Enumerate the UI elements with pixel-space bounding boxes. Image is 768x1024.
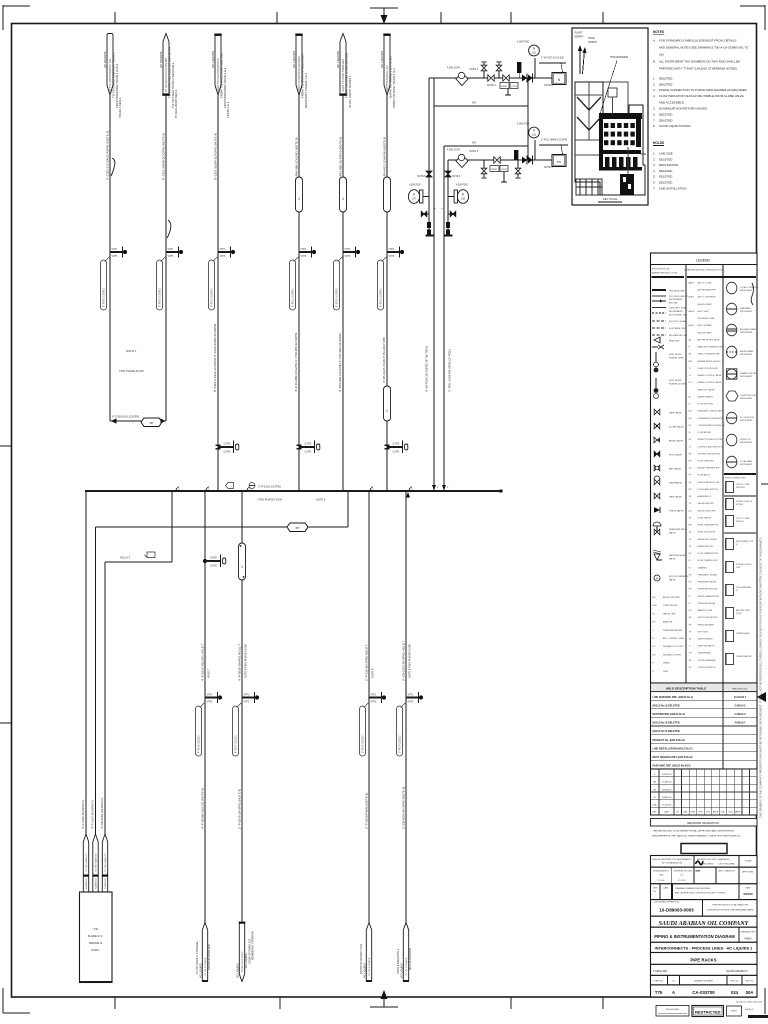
svg-text:INSTRUMENT: INSTRUMENT [740,354,753,356]
svg-text:HOLD 7: HOLD 7 [207,668,211,678]
pipeline L3 off-page flag [215,35,221,96]
svg-text:A.: A. [653,39,656,43]
main pipe rack header [85,490,501,492]
off-page box N row 1 [552,73,566,85]
svg-text:VTP1: VTP1 [345,249,351,251]
pipeline L5 vertical pipe [342,95,344,491]
revision grid frame [651,769,758,815]
svg-text:3.: 3. [653,163,656,167]
flow instrument diamond row 2 [456,155,468,168]
svg-text:VTP5: VTP5 [371,702,377,704]
svg-text:AIR PRESS REG VALVE: AIR PRESS REG VALVE [698,339,721,342]
svg-text:SHARED DISPLAY: SHARED DISPLAY [740,372,757,375]
svg-text:VALVE: VALVE [669,558,676,561]
svg-text:FROM T/N FRAC TRAIN 1 & 2: FROM T/N FRAC TRAIN 1 & 2 [392,68,396,108]
svg-text:T&IA: T&IA [659,874,664,877]
svg-text:ALARM BELLS: ALARM BELLS [698,495,712,498]
svg-text:4"-P913-1CA2P91: 4"-P913-1CA2P91 [380,287,383,307]
svg-text:CHECK VALVE: CHECK VALVE [669,510,684,513]
bottom-right corner mark [764,988,766,1014]
svg-text:4,000 SCFH: 4,000 SCFH [447,67,460,70]
tie-in point VTP on L4 [299,251,312,253]
svg-text:PNEUMATIC GAUGE VALVE: PNEUMATIC GAUGE VALVE [698,410,725,413]
legend spectacle blind open [655,352,657,362]
svg-text:POSITION SWITCH: POSITION SWITCH [698,667,717,669]
svg-text:NOTE 8 DELETION 1: NOTE 8 DELETION 1 [396,948,400,974]
svg-text:DATE: DATE [746,887,752,890]
svg-text:AUTO VENT: AUTO VENT [698,310,710,313]
svg-text:LINE SIZE.: LINE SIZE. [659,152,674,156]
svg-text:VTP5: VTP5 [408,702,414,704]
RESTRICTED stamp [692,1006,724,1017]
svg-text:FO: FO [689,560,692,562]
svg-text:VTP1: VTP1 [220,249,226,251]
svg-text:NORMALLY OPEN: NORMALLY OPEN [663,653,681,656]
top-left corner mark [3,5,30,7]
svg-text:ANALYZER TRANSMITTER: ANALYZER TRANSMITTER [698,346,724,349]
svg-text:7.: 7. [653,186,656,190]
legend bubble PLC FUNCTION [727,412,737,424]
detail pipe row 2 [448,159,552,161]
legend bubble INTERLOCK [727,434,737,446]
svg-text:21-SEP-04: 21-SEP-04 [662,782,673,784]
svg-text:4"-F-1616-3N-SP92 FL: 4"-F-1616-3N-SP92 FL [81,799,85,829]
svg-text:4-HOLD-7: 4-HOLD-7 [734,722,746,725]
svg-text:4"-PA-9427-1CA8 4"-PA-9427-P/: 4"-PA-9427-1CA8 4"-PA-9427-P/N [382,337,386,383]
U-connector pipe between L1 and L2 [110,420,166,422]
svg-text:STEAM TRAP SET: STEAM TRAP SET [736,655,753,658]
CGPS purge station on L6 [384,444,389,446]
key plan lower-left hatched block [576,179,602,195]
job order row [651,900,758,917]
svg-text:PROJECT No. (HOLD No.6): PROJECT No. (HOLD No.6) [653,739,685,742]
svg-text:PROCESS FLOW: PROCESS FLOW [652,269,671,271]
svg-text:GATE VALVE: GATE VALVE [669,412,682,415]
svg-text:TIE-IN W/NUMBE: TIE-IN W/NUMBE [736,587,752,589]
pipeline L4 off-page flag [296,35,302,96]
approval row C frame [651,884,758,900]
bottom border tick marks [114,997,116,1009]
svg-text:DESTINATION: DESTINATION [659,163,678,167]
key plan interior lines [575,94,603,96]
holds table header [651,683,758,692]
svg-text:CGPS: CGPS [305,451,312,454]
svg-text:107: 107 [412,198,417,201]
svg-text:TO T/N ISOM. & STORAGE: TO T/N ISOM. & STORAGE [195,941,199,974]
pipeline L3 vertical pipe [217,95,219,491]
revision validation bar [651,819,758,827]
svg-text:FLARE KO: FLARE KO [95,878,98,889]
pipeline L5 off-page flag [340,34,346,95]
svg-text:AGDV: AGDV [689,324,695,327]
svg-text:NOTE 8: NOTE 8 [371,668,375,678]
svg-text:REDUCER: REDUCER [669,341,680,343]
svg-text:4"-P49-989-1CA2P91 (NOTE 9): 4"-P49-989-1CA2P91 (NOTE 9) [295,137,299,180]
svg-text:CENTER LINE DEVICES: CENTER LINE DEVICES [698,453,721,455]
svg-text:PRESSURE RELAY: PRESSURE RELAY [698,602,717,605]
svg-text:6.: 6. [653,113,656,117]
svg-text:LAB.BL.05: LAB.BL.05 [745,1008,754,1011]
pipeline L2 vertical pipe [165,95,167,421]
flare branch 1 elbow [85,491,87,836]
svg-text:BDV: BDV [653,605,658,607]
svg-text:AND GENERAL NOTES SEE DRAWINGS: AND GENERAL NOTES SEE DRAWINGS T90-A-CA-… [659,46,749,50]
svg-text:AND ACCESSIBLE.: AND ACCESSIBLE. [659,100,685,104]
svg-text:AIR BLOWDOWN: AIR BLOWDOWN [663,596,680,599]
svg-text:2"-W-7827-1CA3-S/B: 2"-W-7827-1CA3-S/B [541,57,564,60]
check valves row 1 [522,75,527,82]
svg-text:DATE: DATE [664,811,669,814]
svg-text:PRESSURE REG.: PRESSURE REG. [669,529,687,531]
svg-text:FUTURE CONN. P: FUTURE CONN. P [736,564,753,566]
svg-text:B.: B. [653,60,656,64]
svg-text:VORTEX BREAKER: VORTEX BREAKER [698,659,717,662]
CGPS purge station on L4 [296,444,301,446]
svg-text:PI: PI [533,48,536,51]
svg-text:FLOW CHECKER: FLOW CHECKER [698,461,715,463]
svg-text:VTP5: VTP5 [112,256,118,258]
legend right column bracket note [751,283,753,305]
revision grid horizontals [651,776,758,778]
svg-text:VTP1: VTP1 [408,695,414,697]
svg-text:INSTRUMENT: INSTRUMENT [740,464,753,466]
arrow up from M4 branch [406,492,410,498]
svg-text:4"-W-7024-3K-1SP92 (4"-W-7024: 4"-W-7024-3K-1SP92 (4"-W-7024) [425,346,429,392]
svg-text:6"-CGD-313-3W-1CA2P91 (NOTE 9): 6"-CGD-313-3W-1CA2P91 (NOTE 9) [106,131,110,180]
legend symbol PLUG VALVE [654,451,657,457]
svg-text:NOTE 4: NOTE 4 [470,150,479,153]
header junction marks [175,487,179,492]
svg-text:4"-P912-1CA2P91: 4"-P912-1CA2P91 [336,287,339,307]
svg-text:REV. No.: REV. No. [745,981,754,983]
svg-text:VAPOR LINE: VAPOR LINE [663,612,676,615]
svg-text:FLARE KO: FLARE KO [104,878,107,889]
svg-text:00A: 00A [746,990,754,995]
svg-text:4.: 4. [653,94,656,98]
DSBP boxes row 1 [500,83,509,89]
svg-text:PRESSURE RECORD: PRESSURE RECORD [698,589,719,591]
svg-text:HC LIQUIDS: HC LIQUIDS [336,51,340,68]
svg-text:BALL VALVE: BALL VALVE [669,468,682,471]
detail row 1 left drop D1a [428,78,430,235]
arrows into header from detail lines [432,485,436,491]
gate valve on row 2 [494,157,497,163]
pipeline L6 off-page flag [384,35,390,96]
svg-text:VACUUM RELIEF: VACUUM RELIEF [669,554,686,557]
svg-text:SAUDI ARAMCO: SAUDI ARAMCO [726,969,748,973]
legend bubble MAIN PANEL [727,303,737,315]
flare line F2 destination tag [93,834,98,892]
svg-text:SHT. No.: SHT. No. [730,981,738,983]
svg-text:(HOLD No.4) DELETED: (HOLD No.4) DELETED [653,722,680,725]
legend connector symbol FUTURE CONN. POINT [726,562,734,573]
detail row 1 bypass drop D1b [433,78,435,491]
svg-text:THIS DRAWING IS THE COMPANY'S: THIS DRAWING IS THE COMPANY'S PROPERTY A… [759,536,763,818]
legend bubble BEHIND PANEL [727,346,737,358]
oval line label on L5 [334,260,340,310]
pipeline L1 off-page flag [107,34,113,96]
svg-text:LINE SIZE/DWG REF. (HOLD No.1): LINE SIZE/DWG REF. (HOLD No.1) [653,696,694,699]
top border tick marks [114,12,116,24]
svg-text:NOTE 3: NOTE 3 [487,84,496,87]
svg-text:ALARM CONTROL VALVE: ALARM CONTROL VALVE [698,381,723,384]
svg-text:HC DRAINS: HC DRAINS [159,51,163,68]
svg-text:J: J [653,630,654,632]
svg-text:COMBINATION PRESSURE: COMBINATION PRESSURE [698,417,724,420]
svg-text:4.: 4. [653,169,656,173]
svg-text:NOTE 8 TWO PHASE FLOW: NOTE 8 TWO PHASE FLOW [408,644,412,678]
svg-text:ELECTRICAL LINE: ELECTRICAL LINE [669,314,688,317]
svg-text:4"-P917-1QUZ91: 4"-P917-1QUZ91 [236,735,238,753]
svg-text:THERMOWELL: THERMOWELL [698,653,713,655]
svg-text:ALARM CONTROL VALVE: ALARM CONTROL VALVE [698,374,723,377]
svg-text:SAUD ALSHABI: SAUD ALSHABI [666,1008,679,1011]
svg-text:NORTH: NORTH [575,36,584,39]
legend column dividers [685,265,687,684]
PP pig launcher on flare branch 2 [287,523,308,532]
svg-text:SET POINT: SET POINT [698,631,709,633]
inline capsule on L6 upper [384,177,391,212]
svg-text:4,000 PSIG: 4,000 PSIG [517,41,529,44]
svg-text:PM/U: PM/U [691,812,696,814]
svg-text:DESTINATION (HOLD No.3): DESTINATION (HOLD No.3) [653,713,685,716]
svg-text:24-HOLD-1: 24-HOLD-1 [734,696,747,699]
svg-text:4"-CB-2103-3N-SP92 FL: 4"-CB-2103-3N-SP92 FL [100,797,104,829]
svg-text:INSPECTION BELL NOTED: INSPECTION BELL NOTED [698,439,724,441]
svg-text:CERT. LOADED BY:: CERT. LOADED BY: [718,870,736,873]
pressure indicator PI row 2 [534,140,536,160]
svg-text:RO: RO [689,382,692,384]
svg-text:PNEUMATIC SIGNAL: PNEUMATIC SIGNAL [698,573,718,576]
svg-text:ALARM SWITCH: ALARM SWITCH [698,545,714,548]
svg-text:M: M [656,577,658,580]
flare line F1 destination tag [83,834,88,892]
pipeline M3 vertical pipe [368,491,370,923]
svg-text:MECHANICAL LINK: MECHANICAL LINK [669,334,688,337]
svg-text:VTP5: VTP5 [345,256,351,258]
svg-text:BD: BD [653,597,656,599]
svg-text:DELETED.: DELETED. [659,113,673,117]
svg-text:8"-P910-1CA2P91: 8"-P910-1CA2P91 [211,287,214,307]
svg-text:VTP1: VTP1 [112,249,118,251]
legend middle column divider bars lower [724,495,756,497]
svg-text:VTP5: VTP5 [207,702,213,704]
key plan dark unit block [599,113,642,119]
approved by row [651,964,758,975]
svg-text:2/8/2006: 2/8/2006 [743,893,753,896]
svg-text:2"-CB-2103-3N-SP92 HOLD 7: 2"-CB-2103-3N-SP92 HOLD 7 [402,640,406,681]
pipeline M3 destination tag bottom [366,923,371,981]
svg-text:PIPING CONNECTORS: PIPING CONNECTORS [725,478,746,480]
diagram type row [651,927,758,942]
legend symbol GLOBE VALVE [654,423,657,429]
svg-text:DELETED: DELETED [659,169,672,173]
svg-text:DESIGN AGENCY: DESIGN AGENCY [653,870,669,873]
svg-text:10-FEB-05: 10-FEB-05 [662,789,673,791]
svg-text:AIR TO SUPPRESS: AIR TO SUPPRESS [698,296,717,299]
pipeline M1 vertical pipe [204,491,206,923]
svg-text:C2UP3: C2UP3 [501,169,507,171]
inline capsule on L4 [296,177,303,212]
svg-text:HC LIQUIDS: HC LIQUIDS [235,963,239,978]
svg-text:LOCALLY MOUNTED: LOCALLY MOUNTED [740,286,759,289]
svg-text:(HOLD No.2) DELETED: (HOLD No.2) DELETED [653,704,680,707]
svg-text:4"-P-49-989-1CA2P91 4"-P49-98: 4"-P-49-989-1CA2P91 4"-P49-989-1CA2P91 [294,332,298,392]
svg-text:STANDARD DWG.: STANDARD DWG. [740,931,756,934]
svg-text:AND CERTIFIED FOR CONSTRUCTION: AND CERTIFIED FOR CONSTRUCTION (LEFT TO … [675,892,726,895]
svg-text:TO T/N FLARE KO: TO T/N FLARE KO [104,853,107,872]
svg-text:W/HOSE: W/HOSE [736,521,744,523]
svg-text:DELETED.: DELETED. [659,118,673,122]
svg-text:RELATED P&ID UNIT (DRAWINGS): RELATED P&ID UNIT (DRAWINGS) [697,858,730,861]
svg-text:PG: PG [689,582,692,584]
svg-text:THIS REVISION No. IS: THIS REVISION No. IS GOVERNED FOR ALL AP… [653,830,735,833]
svg-text:T/N: T/N [93,927,98,931]
svg-text:AIR LINE: AIR LINE [669,302,678,305]
actuated valve row 2 [514,150,518,160]
svg-text:2"-PGL-16684-1CS1P91: 2"-PGL-16684-1CS1P91 [541,139,568,142]
left border tick marks [0,445,11,447]
holds table frame [651,683,758,769]
legend bubble SHARED DISPLAY [727,369,737,379]
svg-text:LINE INSTALLATION (HOLD No.7): LINE INSTALLATION (HOLD No.7) [653,747,693,750]
legend bubble LOCALLY MOUNTED [727,282,737,294]
svg-text:2"-P-1010-PW92 (NOTE 8): 2"-P-1010-PW92 (NOTE 8) [365,793,369,829]
svg-text:GATE VALVE: GATE VALVE [669,496,682,499]
svg-text:PI: PI [462,194,465,197]
svg-text:14-APR-03: 14-APR-03 [662,773,673,776]
svg-text:ALL INSTRUMENT TAG NUMBERS ON: ALL INSTRUMENT TAG NUMBERS ON THIS P&ID … [659,60,740,64]
pipeline L1 vertical pipe [109,95,111,421]
svg-text:TANK LIFT GATES: TANK LIFT GATES [698,388,716,391]
sample station on detail drop right [445,171,451,174]
svg-text:2"-CB-8103-9N-SP92 (NOTE 8): 2"-CB-8103-9N-SP92 (NOTE 8) [402,787,406,829]
holds table rows [651,699,758,701]
svg-text:MOTOR OPERATED: MOTOR OPERATED [669,575,689,578]
svg-text:00A: 00A [653,804,657,807]
svg-text:APPROVED: APPROVED [742,871,754,874]
svg-text:ELEC: ELEC [721,812,726,814]
legend control valve symbol [654,529,657,535]
svg-text:4"-P-30368-1QUZ91 (NOTE 8): 4"-P-30368-1QUZ91 (NOTE 8) [201,788,205,829]
svg-text:FLOW TRANSMITTER: FLOW TRANSMITTER [698,552,719,555]
drawing number value row [651,985,758,997]
svg-text:4"-P-3030-3N4P92 HOLD 7: 4"-P-3030-3N4P92 HOLD 7 [238,644,242,681]
svg-text:4"-F-1617-3N-SP92 FL: 4"-F-1617-3N-SP92 FL [91,799,95,829]
svg-text:DATE: DATE [664,887,670,890]
svg-text:FLOW METER: FLOW METER [698,432,712,434]
svg-text:5.: 5. [653,175,656,179]
svg-text:A: A [672,990,675,995]
svg-text:AUTO SPREAD: AUTO SPREAD [698,324,713,327]
svg-text:CIVIL: CIVIL [728,812,733,814]
svg-text:VTP5: VTP5 [220,256,226,258]
svg-text:VTP1: VTP1 [168,249,174,251]
right border tick mark [761,483,768,485]
svg-text:4,000 PSIG: 4,000 PSIG [409,185,421,187]
legend bubble AUXILIARY PANEL [727,324,737,336]
svg-text:BATTERY LIMIT: BATTERY LIMIT [736,609,751,612]
svg-text:SPEED ELEMENT: SPEED ELEMENT [698,624,716,626]
svg-text:CGPS: CGPS [393,442,400,445]
PP pig launcher on U-connector [141,418,162,427]
svg-text:P&ID HOLD No.: P&ID HOLD No. [732,689,748,691]
svg-text:DRAIN: DRAIN [663,662,670,665]
svg-text:NOTE 8 TWO PHASE FLOW: NOTE 8 TWO PHASE FLOW [244,644,248,678]
tie-in point VTP on L6 [387,251,400,253]
top match-line arrow [370,7,398,9]
svg-text:010: 010 [659,53,664,57]
inline capsule on L5 [340,177,347,212]
svg-text:ABBREVIATIONS & SYM.: ABBREVIATIONS & SYM. [652,272,678,275]
svg-text:FROM SOUR FWKO: FROM SOUR FWKO [242,951,244,972]
svg-text:FLANGE CLOSED: FLANGE CLOSED [669,383,687,386]
svg-text:PURGE CONNECTION TO PURGE MAIN: PURGE CONNECTION TO PURGE MAIN HEADER AS… [659,88,748,92]
legend bubble LOCAL PANEL [727,456,737,468]
svg-text:4"-PA-9427-1CA8-P/N (NOTE 9): 4"-PA-9427-1CA8-P/N (NOTE 9) [383,137,387,180]
svg-text:INSTRUMENT: INSTRUMENT [669,311,683,313]
svg-text:S/N: S/N [472,142,476,145]
svg-text:3.: 3. [653,88,656,92]
legend connector symbol UTILITY CONN. W/HOSE [726,516,734,527]
key plan lower dark blob [620,174,634,195]
detail pipe row 1 [429,77,552,79]
svg-text:4"-P61-992-3S-49P16 (NOTE 9): 4"-P61-992-3S-49P16 (NOTE 9) [339,137,343,180]
check valves row 2 [522,157,527,164]
svg-text:TO T/N STORAGE: TO T/N STORAGE [204,957,207,976]
legend symbol CHECK VALVE [654,507,660,513]
svg-text:2"-P-318-8N-SP92 HOLD 7: 2"-P-318-8N-SP92 HOLD 7 [365,644,369,681]
svg-text:INTERCONNECTS - PROCESS LINES: INTERCONNECTS - PROCESS LINES - HC LIQUI… [655,946,754,951]
svg-text:OTHER: OTHER [745,861,753,863]
legend bubble COMPUTER FUNC. [726,391,738,401]
svg-text:P&ID: P&ID [744,937,752,941]
svg-text:ANGLE VALVE: ANGLE VALVE [669,440,684,443]
pressure indicator PI row 1 [534,58,536,78]
legend relief valve symbol [654,554,660,560]
svg-text:TO T/N STORAGE: TO T/N STORAGE [368,957,371,976]
svg-text:DELETED: DELETED [659,157,672,161]
svg-text:TW: TW [689,653,692,655]
svg-text:VTP1: VTP1 [389,249,395,251]
tie-in point VTP on M2 [242,697,255,699]
svg-text:□ NOT REQUIRED: □ NOT REQUIRED [718,863,736,866]
svg-text:105: 105 [461,198,466,201]
legend motor operated symbol [654,575,660,581]
svg-text:DSP2: DSP2 [211,565,218,568]
svg-text:NOTE 6: NOTE 6 [452,176,461,178]
svg-text:P.O.900: P.O.900 [658,880,665,882]
svg-text:GUIDED METER FLOW: GUIDED METER FLOW [698,482,720,484]
svg-text:CHANNEL: CHANNEL [698,566,708,569]
oval line label on L2 [157,260,163,310]
svg-text:SAUDI ARABIAN OIL COMPANY: SAUDI ARABIAN OIL COMPANY [659,921,750,927]
tie-in point VTP on L5 [343,251,356,253]
svg-text:8"-CGS-30948 SEQ 2: 8"-CGS-30948 SEQ 2 [174,89,178,118]
svg-text:PLUG VALVE: PLUG VALVE [669,454,682,457]
oval line label on L6 [378,260,384,310]
ISOP purge station on M1 [203,559,207,563]
company name row [651,916,758,927]
svg-text:VTP1: VTP1 [244,695,250,697]
svg-text:DATE: DATE [696,870,702,873]
svg-text:PLANT No.: PLANT No. [653,980,664,983]
CGPS purge station on L3 [215,444,220,446]
svg-text:HOLDS: HOLDS [653,141,664,145]
pipeline M2 destination tag bottom [239,923,244,981]
svg-text:4,000 PSIG: 4,000 PSIG [456,185,468,187]
U-connector flow arrows [111,418,117,423]
